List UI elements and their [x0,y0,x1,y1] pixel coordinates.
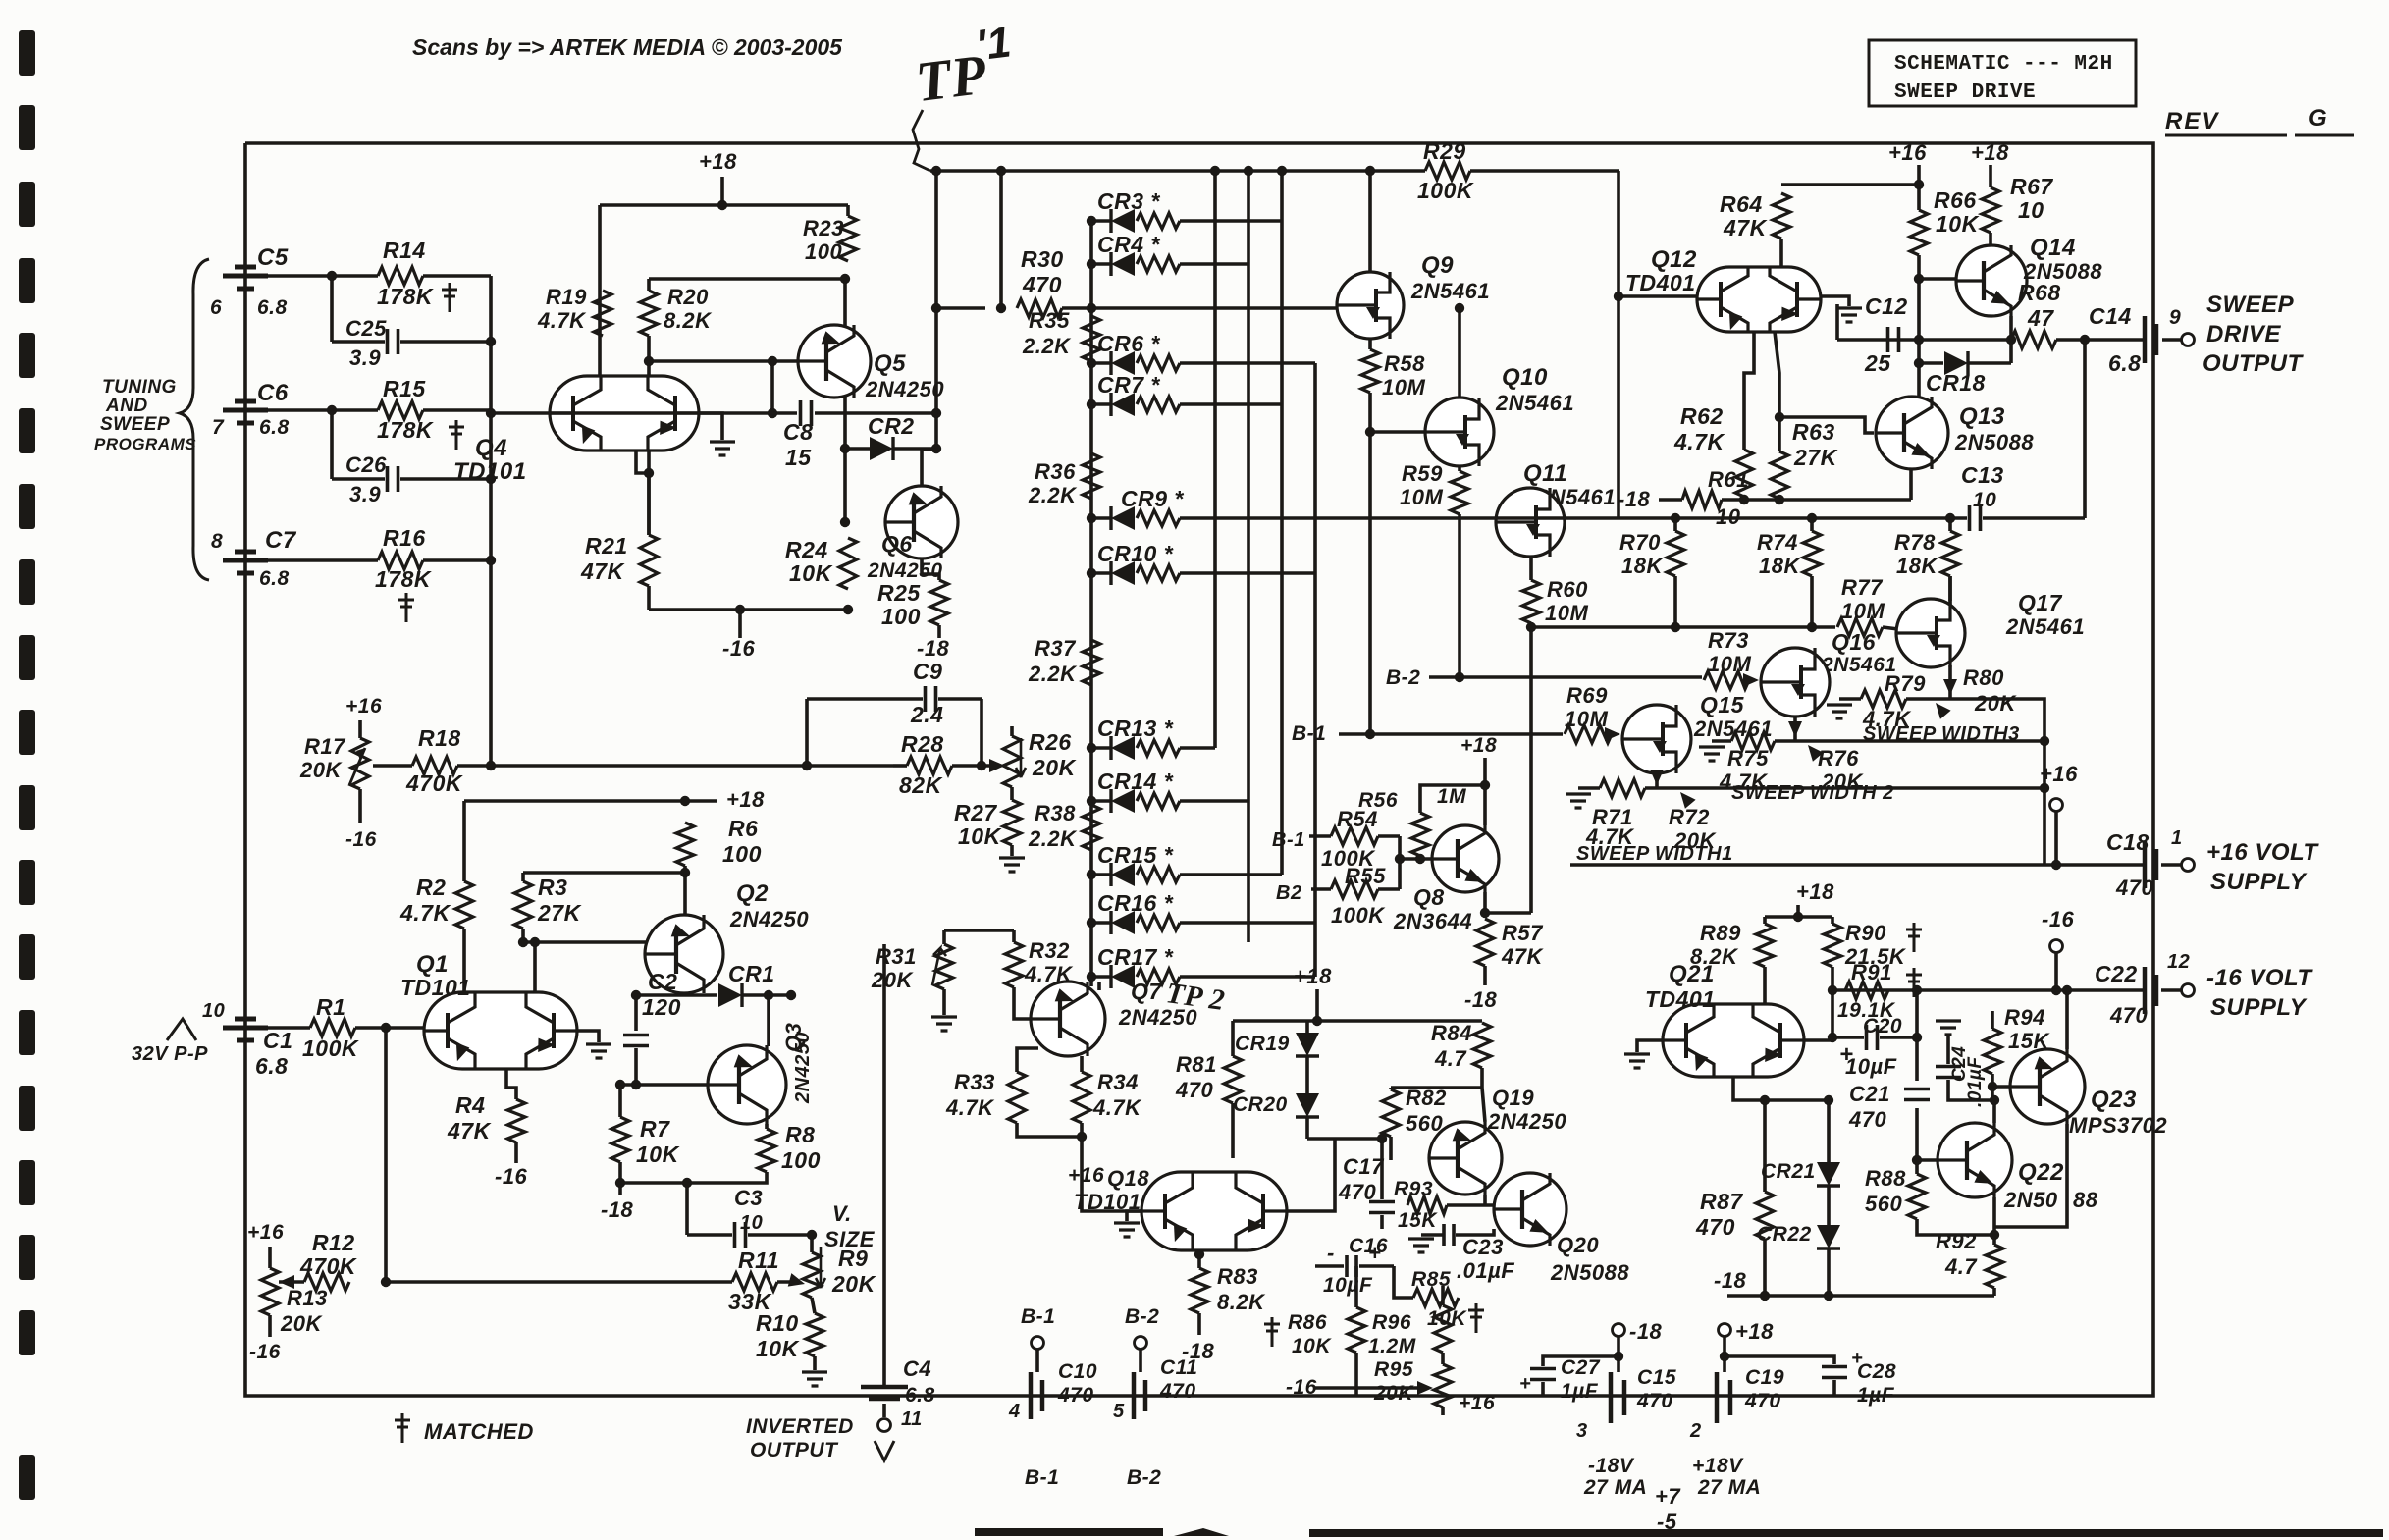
wire bus drop x1020 [999,171,1003,308]
program brace [180,259,209,580]
transistor Q3 [708,1045,786,1124]
wire R17 bottom [358,789,362,823]
wire C21 bottom [1915,1108,1919,1174]
svg-text:20K: 20K [1974,691,2017,716]
wire R10 bottom [813,1356,817,1370]
wire CR18 left [1919,361,1943,365]
diode CR14 [1111,789,1135,813]
wire R96 R95 [1441,1353,1445,1364]
svg-text:+16: +16 [2040,762,2078,786]
svg-text:Q19: Q19 [1492,1086,1534,1110]
svg-text:C13: C13 [1961,462,2004,488]
resistor R90 [1824,924,1841,967]
svg-text:SWEEP WIDTH1: SWEEP WIDTH1 [1576,843,1733,865]
wire R82 top [1389,1088,1393,1089]
svg-text:CR21: CR21 [1761,1160,1816,1183]
wire R86 top [1354,1266,1358,1307]
wire plus18 Q8 stub [1483,758,1487,785]
svg-text:Q20: Q20 [1557,1233,1599,1257]
wire C24 bottom [1948,1080,1992,1100]
resistor CR13 series [1137,740,1180,756]
svg-text:R96: R96 [1372,1311,1411,1334]
svg-text:10M: 10M [1565,707,1608,731]
wire C23 wires [1421,1233,1443,1237]
svg-text:3.9: 3.9 [349,482,381,506]
svg-text:10: 10 [202,1000,225,1022]
FET Q11 [1496,488,1565,557]
svg-text:TD401: TD401 [1645,986,1716,1012]
wire Q6 collector [922,450,936,486]
svg-text:2N50: 2N50 [2003,1188,2058,1212]
wire R62 top [1744,332,1754,450]
diode CR9 [1111,506,1135,530]
node R6 R3 [680,868,690,877]
matched mark R14 [442,283,457,312]
svg-text:C20: C20 [1863,1015,1902,1037]
wire C26 branch left [330,410,334,479]
wire R92 bottom [1992,1288,1996,1296]
capacitor C6 [223,401,268,423]
svg-text:8: 8 [211,530,223,553]
svg-text:2N4250: 2N4250 [1487,1109,1566,1134]
resistor R86 [1348,1307,1365,1353]
svg-text:560: 560 [1406,1111,1443,1136]
wire R84 bottom [1480,1068,1484,1088]
resistor CR3 series [1137,213,1180,229]
node R90 line [1828,985,1837,995]
svg-text:6.8: 6.8 [255,1053,288,1079]
wire Q5 base [649,359,821,363]
wire plus18 drop mid [1315,989,1319,1021]
matched dagger [395,1413,410,1443]
svg-text:20K: 20K [299,758,343,782]
node CR14 [1087,796,1096,806]
svg-text:2N5461: 2N5461 [1821,654,1897,676]
capacitor C21 [1904,1089,1930,1100]
resistor R10 [806,1313,823,1356]
svg-text:Q21: Q21 [1669,961,1715,987]
wire R78 top [1948,518,1952,531]
wire Q16 source [1793,717,1797,741]
svg-text:2N4250: 2N4250 [867,559,943,582]
svg-text:C28: C28 [1857,1360,1896,1383]
transistor Q6 [885,486,958,558]
wire R34 bottom [1080,1123,1084,1137]
wire Q8 emitter [1483,892,1487,913]
wire Q3 emit [765,1124,769,1129]
wire C6 to R15 [261,408,378,412]
svg-text:R27: R27 [954,800,997,825]
resistor R3 [514,881,532,929]
wire C2 top [634,995,638,1031]
wiper R9 arrow [816,1247,825,1288]
svg-text:R94: R94 [2004,1005,2045,1030]
resistor R16 [378,552,423,569]
resistor R1 [310,1019,355,1036]
svg-text:B2: B2 [1276,882,1302,904]
svg-text:-18: -18 [1618,487,1651,511]
svg-text:100: 100 [722,841,762,867]
svg-text:R82: R82 [1406,1086,1447,1110]
wire R13 bottom [268,1315,272,1337]
wire join to Q8 [1400,857,1432,861]
svg-text:R95: R95 [1374,1358,1413,1381]
svg-text:R64: R64 [1720,191,1763,217]
node Q22 emit [1990,1230,1999,1240]
svg-text:4: 4 [1008,1401,1021,1422]
resistor R73 [1704,671,1749,689]
svg-text:10: 10 [740,1212,763,1234]
arrow Q15 gate [1605,727,1620,741]
wire plus18 row Q2 [464,799,687,803]
svg-text:+: + [1368,1241,1381,1265]
svg-text:OUTPUT: OUTPUT [750,1439,839,1461]
dagger R90 [1906,923,1922,952]
dual transistor Q18 TD101 [1141,1172,1287,1250]
resistor R79 [1861,690,1906,708]
wire Q10 gate [1370,430,1425,434]
resistor R83 [1191,1268,1208,1313]
svg-text:R4: R4 [455,1092,485,1118]
wire R58 bottom [1368,393,1372,432]
svg-text:MPS3702: MPS3702 [2069,1113,2167,1138]
ground Q1 [586,1044,611,1058]
node CR16 [1087,918,1096,928]
resistor R4 [507,1099,525,1142]
node C8 right [931,408,941,418]
svg-text:R37: R37 [1035,636,1077,661]
wire R82 bottom [1389,1137,1393,1160]
svg-text:+18: +18 [1294,964,1332,988]
svg-text:Q17: Q17 [2018,590,2063,615]
svg-text:2.2K: 2.2K [1028,826,1078,851]
svg-text:C6: C6 [257,380,289,406]
node Q18 emit [1194,1249,1204,1259]
svg-text:-18V: -18V [1588,1455,1635,1477]
svg-text:B-2: B-2 [1125,1305,1159,1328]
arrow Q16 source [1788,721,1802,737]
capacitor C8 [801,400,812,426]
node plus16 rail [1914,180,1924,189]
node R16 bus [486,556,496,565]
resistor R6 [676,823,694,866]
resistor R32 [1005,942,1023,987]
resistor R93 [1407,1196,1447,1214]
capacitor C3 [735,1222,746,1248]
node ladder top x1306 [1277,166,1287,176]
dual transistor Q1 TD101 [424,992,577,1069]
resistor R58 [1361,349,1379,393]
svg-text:SWEEP: SWEEP [2206,292,2295,318]
svg-text:+: + [1519,1373,1531,1395]
svg-text:R59: R59 [1402,461,1443,486]
resistor R85 [1413,1289,1459,1306]
potentiometer R9 [803,1252,821,1298]
wire R95 bottom [1441,1407,1445,1415]
diode CR6 [1111,351,1135,375]
svg-text:7: 7 [212,416,225,439]
node R91 right [1912,985,1922,995]
wire R30 to spine [1062,306,1091,310]
resistor R82 [1382,1089,1400,1137]
capacitor C9 [926,686,936,712]
wire R61 right [1722,498,1911,502]
node output node [2080,335,2090,345]
capacitor C20 [1867,1025,1878,1050]
svg-text:47K: 47K [1501,944,1544,969]
wire C27 branch [1543,1356,1619,1366]
ground Q21 [1624,1054,1650,1068]
wire CR20 to C17 [1307,1137,1382,1141]
svg-text:10: 10 [2018,197,2044,223]
svg-text:R77: R77 [1841,575,1884,600]
wire B2 row [1429,675,1702,679]
node spine R30 [1087,303,1096,313]
resistor R12 [304,1273,349,1291]
svg-text:+16: +16 [1459,1392,1495,1414]
svg-text:3.9: 3.9 [349,345,381,370]
svg-text:18K: 18K [1759,554,1801,578]
svg-text:2N4250: 2N4250 [865,377,944,401]
wire C16 row [1315,1264,1344,1268]
potentiometer R95 [1434,1364,1452,1407]
wire R2 bottom [462,929,466,993]
wire C25 right [400,340,491,344]
node Q23 coll [2062,985,2072,995]
capacitor C22 [2145,967,2156,1014]
dagger R86 [1264,1317,1280,1347]
wire minus16 drop [738,610,742,638]
title box [1869,40,2136,106]
svg-text:R55: R55 [1345,864,1386,888]
svg-text:R33: R33 [954,1070,995,1094]
node plus16 [2051,860,2061,870]
resistor R20 [640,291,658,336]
resistor R19 [594,291,611,336]
wire R80 right [2022,699,2044,865]
node minus16 stub [735,605,745,614]
wire Q10 source [1458,466,1461,471]
wire R63 stub [1778,499,1781,500]
wire R20 stub [647,279,651,291]
node R63 base [1775,412,1784,422]
diode CR15 [1111,863,1135,886]
svg-text:CR14 *: CR14 * [1097,769,1174,794]
svg-text:2.2K: 2.2K [1028,662,1078,686]
svg-text:R35: R35 [1029,308,1070,333]
capacitor C23 [1444,1224,1454,1246]
wire C19 stub [1723,1337,1726,1372]
wire R26 bottom [1010,787,1014,800]
svg-text:TUNING: TUNING [102,377,177,398]
wire Q10 drain [1458,308,1461,398]
svg-text:C22: C22 [2095,961,2138,986]
svg-text:5: 5 [1113,1401,1125,1422]
diode CR3 [1111,209,1135,233]
node Q8 emit [1480,908,1490,918]
svg-text:R70: R70 [1619,530,1661,555]
svg-text:-18: -18 [917,636,950,661]
svg-text:470: 470 [1175,1078,1213,1102]
wire CR3 right [1180,219,1282,223]
svg-text:Q1: Q1 [416,951,449,978]
node CR9 [1087,513,1096,523]
wire R79 left [1839,697,1861,701]
svg-text:R25: R25 [877,580,921,606]
svg-text:R20: R20 [667,285,709,309]
resistor R8 [758,1129,775,1172]
svg-text:C7: C7 [265,527,297,554]
node bus x1020 [996,166,1006,176]
resistor R14 [378,267,423,285]
svg-text:470: 470 [1744,1390,1781,1412]
svg-text:2N5088: 2N5088 [1954,430,2034,454]
wire Q4 emitters [636,451,649,473]
node R30 left [996,303,1006,313]
svg-text:470: 470 [1636,1390,1673,1412]
wire R85 left [1394,1266,1413,1298]
svg-text:18K: 18K [1621,554,1664,578]
svg-text:C11: C11 [1160,1356,1197,1379]
svg-text:47K: 47K [580,558,625,584]
wire R86 bottom [1354,1353,1358,1396]
svg-text:R73: R73 [1708,628,1749,653]
svg-text:B-1: B-1 [1272,829,1305,851]
wire B2 stub [1139,1350,1142,1372]
wire Q22 emitter [1992,1197,1996,1245]
terminal B-1 [1032,1337,1044,1350]
svg-text:R36: R36 [1035,459,1076,484]
svg-text:R16: R16 [383,525,426,551]
svg-text:470K: 470K [299,1253,357,1279]
wire plus16 stub [2054,812,2058,865]
terminal inverted output [878,1419,891,1432]
diode CR21 [1817,1162,1840,1186]
wire CR4 right [1180,262,1248,266]
diode CR18 [1944,351,1968,375]
node Q10 top bus [1455,303,1464,313]
wire CR15 lead [1091,873,1111,876]
arrow Q15 source [1650,770,1664,785]
diode CR1 [718,983,742,1007]
svg-text:+16: +16 [1068,1164,1104,1187]
svg-text:6.8: 6.8 [2108,350,2141,376]
wire R56 stub [1418,856,1422,859]
wire R90 top [1831,917,1834,924]
wire R64 bottom [1779,239,1783,269]
svg-text:+18: +18 [699,149,737,174]
node row639 r74 [1807,622,1817,632]
svg-text:+18: +18 [1460,734,1497,757]
svg-text:C12: C12 [1865,293,1908,319]
svg-text:47K: 47K [447,1118,492,1143]
resistor R11 [732,1273,777,1291]
svg-text:B-2: B-2 [1386,666,1420,689]
node CR2 right [931,444,941,453]
wire R89 top [1763,917,1767,924]
node R33 R34 [1077,1132,1087,1142]
svg-text:2N5461: 2N5461 [1693,717,1773,741]
wire Q14 emitter [2009,316,2013,340]
node R87 top [1760,1095,1770,1105]
svg-text:2.2K: 2.2K [1022,334,1072,358]
resistor R23 [839,216,857,261]
svg-text:+7: +7 [1655,1484,1681,1509]
node C27 tap [1614,1352,1623,1361]
svg-text:R89: R89 [1700,921,1741,945]
svg-text:C19: C19 [1745,1366,1784,1389]
resistor R92 [1986,1245,2003,1288]
svg-text:C1: C1 [263,1028,292,1053]
node CR3 [1087,216,1096,226]
node R74 top [1807,513,1817,523]
wire R57 bottom [1483,966,1487,985]
svg-text:2N5461: 2N5461 [2005,614,2085,639]
node Q12 base [1614,292,1623,301]
wire CR18 rstub [2009,340,2013,363]
diode CR17 [1111,965,1135,988]
wire minus16 stub [2054,953,2058,990]
matched mark R16 [398,593,414,622]
svg-text:-16: -16 [1286,1376,1317,1399]
ground R71 [1566,794,1591,808]
wire inner bus [930,169,1394,173]
svg-text:10µF: 10µF [1323,1274,1373,1297]
svg-text:Q15: Q15 [1700,692,1745,717]
ground R27 [999,858,1025,872]
wire CR21 wire [1827,1100,1831,1164]
svg-text:470: 470 [1022,272,1062,297]
svg-text:TD101: TD101 [453,458,527,485]
resistor R28 [907,757,952,774]
svg-text:C9: C9 [913,659,942,684]
resistor R37 [1083,640,1100,685]
svg-text:Q23: Q23 [2091,1087,2137,1113]
svg-text:CR1: CR1 [728,961,775,986]
wire R71 left [1578,786,1600,790]
node Q22 base [1912,1155,1922,1165]
capacitor C14 [2145,316,2156,363]
svg-text:20K: 20K [1032,755,1077,780]
wire R4 bottom [514,1142,518,1163]
wire R13 top [268,1247,272,1268]
svg-text:+16: +16 [345,695,382,717]
wire Q12 right to gnd [1821,296,1849,306]
wiper R95 arrow [1417,1381,1433,1395]
dagger R91 [1906,968,1922,997]
svg-text:+18V: +18V [1692,1455,1744,1477]
svg-text:+16: +16 [247,1221,284,1244]
svg-text:R75: R75 [1727,746,1769,770]
node R66 Q14 [1914,274,1924,284]
terminal minus16 out [2182,984,2195,997]
svg-text:2N5461: 2N5461 [1495,391,1574,415]
resistor R68 [2011,331,2056,348]
wire R1 to Q1 [355,1026,424,1030]
svg-text:R57: R57 [1502,921,1544,945]
svg-text:C17: C17 [1343,1154,1385,1179]
svg-text:R68: R68 [2018,280,2061,305]
svg-text:100K: 100K [1331,903,1386,928]
node CR17 [1087,972,1096,982]
svg-text:82K: 82K [899,772,943,798]
svg-text:120: 120 [642,994,681,1020]
svg-text:470: 470 [1338,1180,1376,1204]
resistor CR4 series [1137,256,1180,272]
svg-text:100: 100 [881,604,921,629]
resistor R63 [1771,451,1788,499]
input waveform mark [167,1019,196,1040]
